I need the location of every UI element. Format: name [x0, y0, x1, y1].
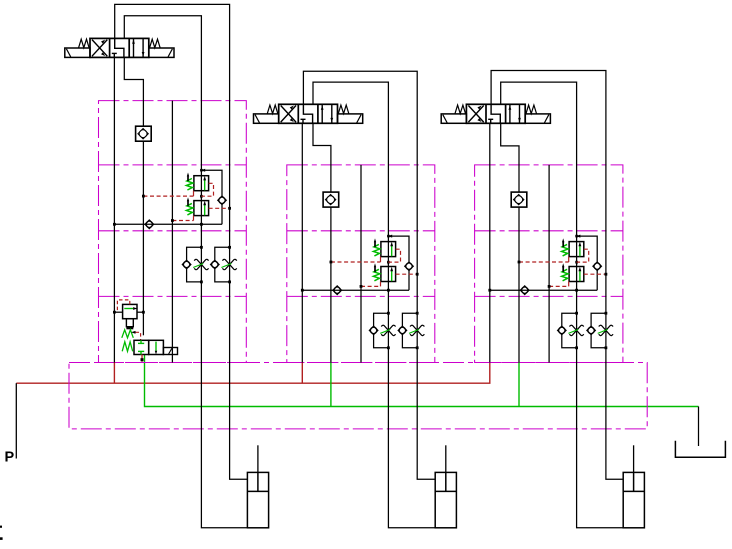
tank stub block 3 (green): [518, 363, 520, 407]
pilot line RV1b sense (red dashed): [209, 207, 231, 210]
pilot line RV2b drain (red dashed): [360, 282, 381, 288]
wire DV1 T-port loop to line: [124, 16, 247, 528]
tank symbol: [675, 441, 725, 458]
directional valve DV1 body: [90, 38, 149, 57]
throttle-check TC3b check ball: [587, 326, 595, 334]
DV2 left position (crossed arrows): [281, 105, 296, 124]
DV1 right spring: [150, 39, 161, 48]
DV2 right solenoid: [338, 114, 363, 123]
wire drain line block 3: [548, 165, 550, 363]
DV1 left position (crossed arrows): [92, 39, 107, 58]
wire cross line block 2: [301, 289, 409, 292]
DV2 right spring: [338, 105, 349, 114]
wire DV2 T-port loop to line: [313, 82, 435, 528]
wire CB2 to cross line: [408, 270, 410, 290]
DV3 left solenoid: [441, 114, 466, 123]
DV1 left solenoid: [65, 48, 90, 57]
pilot line RV3a sense (red dashed): [518, 257, 569, 264]
check ball CD3 on cross line: [520, 286, 529, 295]
pilot stub block 2 (red): [301, 363, 303, 384]
PRV1 pilot to valve (red dashed): [131, 331, 141, 340]
DV2 left spring: [267, 105, 278, 114]
throttle-check TC1a throttle: [193, 259, 208, 269]
stray mark 2: [0, 537, 3, 540]
relief valve RV1a (upper): [186, 173, 208, 191]
wire RV2 top branch: [387, 235, 409, 263]
PRV1 spring (green): [122, 330, 134, 338]
wire below CV1: [142, 141, 144, 312]
wire PRV1 outlet: [137, 311, 143, 313]
check valve CV3 (boxed): [511, 192, 527, 207]
DV2 centre position spool path: [301, 104, 313, 123]
pilot line RV1b drain (red dashed): [171, 216, 194, 222]
throttle-check TC3b throttle: [598, 325, 613, 335]
throttle-check TC3a throttle: [568, 325, 583, 335]
check ball CB3 on branch: [593, 262, 601, 270]
cylinder CYL3: [623, 445, 644, 528]
wire DV3 P-port loop to return line: [491, 71, 623, 480]
pilot line RV2a sense (red dashed): [330, 257, 381, 264]
wire drain line block 1: [171, 101, 173, 363]
wire DV2 P-port loop to return line: [303, 71, 435, 479]
throttle-check TC3b bypass loop: [591, 312, 607, 349]
PRV1 piston: [126, 319, 133, 330]
throttle-check TC2b bypass loop: [402, 312, 418, 349]
relief valve RV3a (upper): [562, 238, 584, 256]
check valve CV1 (boxed): [136, 126, 152, 141]
PRV1 pilot loop (red dashed): [117, 300, 129, 312]
throttle-check TC1b throttle: [221, 259, 236, 269]
throttle-check TC1b check ball: [211, 260, 219, 268]
cylinder CYL1: [247, 445, 268, 528]
wire cross line block 3: [488, 289, 597, 292]
wire cross line block 1: [113, 223, 222, 226]
wire RV3 top branch: [575, 235, 597, 263]
wire pilot pressure line P (red): [16, 363, 490, 384]
directional valve DV3 body: [466, 104, 525, 123]
relief valve RV2a (upper): [373, 238, 395, 256]
pressure reducing valve PRV1 body: [123, 304, 138, 318]
wire PRV1 inlet: [114, 311, 122, 313]
arrow between relief boxes block 3: [575, 261, 578, 266]
DV3 right solenoid: [525, 114, 550, 123]
pilot line RV3b sense (red dashed): [584, 273, 608, 276]
DV1 right position (parallel arrows): [132, 38, 144, 57]
wire below CV2: [330, 207, 332, 362]
DV1 centre position spool path: [112, 38, 124, 57]
wire below CV3: [518, 207, 520, 362]
wire DV3 port A down: [489, 123, 491, 362]
directional valve DV2 body: [279, 104, 338, 123]
throttle-check TC3a bypass loop: [562, 312, 578, 349]
DV1 right solenoid: [149, 48, 174, 57]
manifold boundary (phantom): [69, 363, 647, 429]
wire P riser (black): [15, 383, 17, 458]
valve block 2 boundary (phantom): [287, 165, 435, 363]
pilot valve PV1 body: [134, 340, 178, 354]
check ball CD1 on cross line: [145, 220, 154, 229]
wire CB1 to cross line: [221, 204, 223, 224]
valve block 3 boundary (phantom): [475, 165, 623, 363]
cylinder CYL2: [435, 445, 456, 528]
wire DV1 P-port loop to return line: [115, 4, 248, 479]
DV1 left spring: [79, 39, 90, 48]
pilot line RV3a loop (red dashed): [577, 249, 589, 262]
wire DV2 port A down: [301, 123, 303, 362]
wire CB3 to cross line: [596, 270, 598, 290]
pilot stub block 1 (red): [113, 363, 115, 384]
wire PV1 to manifold (red): [141, 355, 144, 362]
DV3 centre position spool path: [488, 104, 500, 123]
wire tank return bus (green): [145, 354, 699, 406]
pilot line RV1a loop (red dashed): [201, 183, 213, 196]
pilot line RV2b sense (red dashed): [396, 273, 419, 276]
relief valve RV2b (lower): [373, 263, 395, 281]
wire tank drop: [698, 407, 700, 447]
wire DV3 T-port loop to line: [501, 82, 624, 528]
PV1 left position (blocked, green): [138, 340, 144, 354]
relief valve RV3b (lower): [562, 263, 584, 281]
DV3 right position (parallel arrows): [509, 104, 521, 123]
throttle-check TC3a check ball: [558, 326, 566, 334]
DV3 left spring: [455, 105, 466, 114]
wire v2 stub to pilot valve: [142, 312, 144, 335]
throttle-check TC2b throttle: [409, 325, 424, 335]
arrow between relief boxes block 2: [387, 261, 390, 266]
arrow between relief boxes block 1: [200, 195, 203, 200]
tank stub block 2 (green): [330, 363, 332, 407]
DV2 right position (parallel arrows): [321, 104, 333, 123]
pilot line RV1a sense (red dashed): [142, 191, 194, 198]
throttle-check TC2a bypass loop: [374, 312, 390, 349]
PV1 spring (green): [122, 342, 133, 352]
junction dots reducing-valve line: [113, 311, 145, 314]
PV1 right position (flow, green): [155, 342, 157, 355]
pilot line RV3b drain (red dashed): [548, 282, 569, 288]
valve block 1 boundary (phantom): [99, 101, 247, 363]
throttle-check TC1b bypass loop: [215, 246, 231, 283]
DV3 left position (crossed arrows): [468, 105, 483, 124]
check ball CD2 on cross line: [333, 286, 342, 295]
throttle-check TC2a check ball: [369, 326, 377, 334]
check valve CV2 (boxed): [323, 192, 339, 207]
DV2 left solenoid: [254, 114, 279, 123]
throttle-check TC1a check ball: [182, 260, 190, 268]
stray mark 1: [0, 526, 2, 528]
wire RV1 top branch: [200, 169, 222, 197]
throttle-check TC1a bypass loop: [187, 246, 203, 283]
check ball CB2 on branch: [405, 262, 413, 270]
svg-text:P: P: [5, 450, 15, 466]
throttle-check TC2b check ball: [398, 326, 406, 334]
wire DV1 port B jog down: [124, 57, 143, 126]
wire drain line block 2: [360, 165, 362, 363]
wire DV3 port B jog down: [501, 123, 519, 192]
wire DV2 port B jog down: [313, 123, 331, 192]
node P label: [5, 450, 15, 466]
pilot line RV2a loop (red dashed): [388, 249, 400, 262]
check ball CB1 on branch: [218, 196, 226, 204]
relief valve RV1b (lower): [186, 197, 208, 215]
DV3 right spring: [526, 105, 537, 114]
throttle-check TC2a throttle: [380, 325, 395, 335]
wire DV1 port A down: [113, 57, 115, 362]
